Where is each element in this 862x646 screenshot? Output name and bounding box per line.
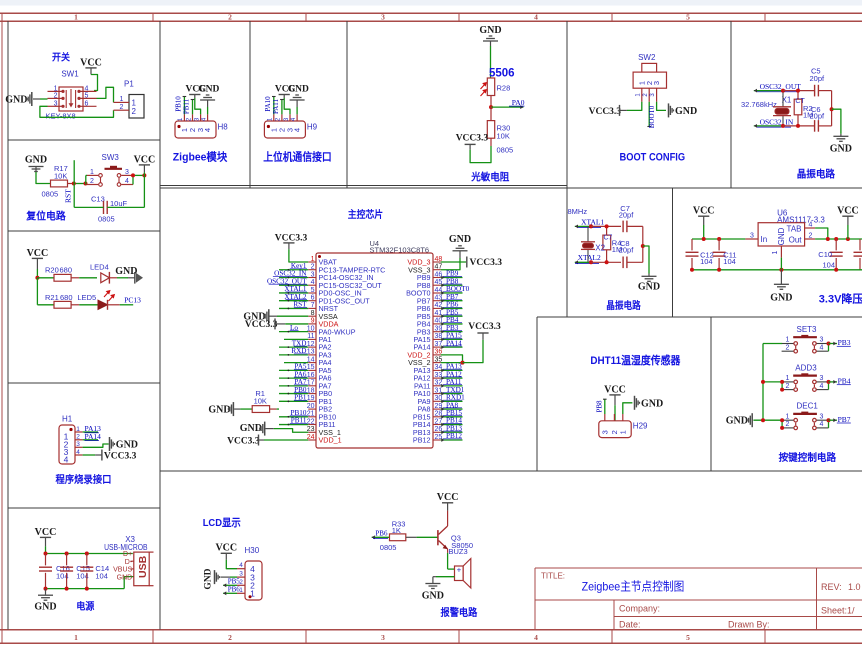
svg-text:PB6: PB6 [375, 529, 388, 537]
resistor R2 [794, 99, 802, 115]
net wire XTAL1 (U4 pin5) [279, 292, 308, 294]
net wire RXD1 (U4 pin30) [441, 400, 463, 402]
svg-text:2: 2 [786, 421, 790, 428]
net wire RST (U4 pin7) [279, 307, 308, 309]
svg-text:KEY-8X8: KEY-8X8 [46, 112, 76, 121]
svg-text:3: 3 [76, 441, 80, 448]
svg-text:3: 3 [381, 13, 385, 22]
net wire TXD (U4 pin12) [279, 346, 308, 348]
svg-text:6: 6 [85, 100, 89, 107]
svg-text:GND: GND [479, 25, 501, 36]
svg-text:GND: GND [204, 568, 214, 589]
svg-text:4: 4 [85, 85, 89, 92]
svg-text:5: 5 [686, 633, 690, 642]
net wire PB10 (H8) [183, 97, 185, 115]
net wire PB1 (U4 pin19) [279, 400, 308, 402]
svg-text:680: 680 [60, 293, 73, 302]
svg-text:5: 5 [85, 92, 89, 99]
net wire Lo (U4 pin10) [279, 331, 308, 333]
svg-text:GND: GND [638, 282, 660, 293]
ic U4 right pin stubs and names [406, 256, 442, 445]
wire to GND (32k) [832, 109, 841, 134]
junction dots R2 [796, 89, 800, 93]
svg-text:4: 4 [201, 117, 207, 121]
svg-text:VCC3.3: VCC3.3 [104, 451, 137, 461]
wire VCC to pin3 (H8) [195, 98, 201, 114]
svg-text:3.3V降压电路: 3.3V降压电路 [819, 292, 862, 306]
svg-text:VCC: VCC [27, 248, 49, 259]
svg-text:3: 3 [381, 633, 385, 642]
svg-text:2: 2 [643, 93, 649, 97]
svg-text:H29: H29 [633, 421, 648, 430]
junction dot PA0 node [489, 105, 493, 109]
svg-text:3: 3 [125, 169, 129, 176]
wire node to PA0 [491, 106, 523, 108]
junction dots (SW3 right) [131, 173, 135, 177]
svg-text:3: 3 [194, 117, 200, 121]
wire U4 pin11 [284, 338, 308, 340]
net wire XTAL2 [575, 261, 592, 263]
net wire PB9 (U4 pin46) [441, 276, 463, 278]
svg-text:4: 4 [293, 128, 302, 132]
net wire PB6 (LCD) [223, 592, 237, 594]
svg-text:2: 2 [228, 633, 232, 642]
svg-text:1.0: 1.0 [848, 582, 861, 592]
svg-text:USB: USB [137, 555, 149, 578]
net wire PA8 (U4 pin29) [441, 408, 463, 410]
svg-text:晶振电路: 晶振电路 [797, 168, 836, 181]
border zone ticks [152, 13, 154, 21]
svg-text:20pf: 20pf [619, 211, 635, 220]
net wire PB0 (U4 pin18) [279, 393, 308, 395]
net wire PA15 (U4 pin38) [441, 338, 463, 340]
wire DEC1 pins3-4 tie [828, 420, 830, 428]
svg-text:VCC: VCC [35, 527, 57, 538]
svg-text:OSC32_OUT: OSC32_OUT [760, 82, 802, 91]
connector H9 [273, 114, 275, 121]
net wire PB4 [829, 381, 838, 383]
net wire PA13 (U4 pin34) [441, 369, 463, 371]
svg-text:20pf: 20pf [810, 112, 826, 121]
svg-text:PC13: PC13 [124, 295, 141, 304]
svg-text:H9: H9 [307, 123, 318, 132]
wire SW2 pin1 to VCC3.3 [627, 102, 642, 111]
svg-text:SW3: SW3 [102, 153, 120, 162]
net wire OSC32_IN (U4 pin3) [279, 276, 308, 278]
svg-text:按键控制电路: 按键控制电路 [779, 451, 837, 464]
wire SW3 pins 3-4 tie to VCC [132, 175, 134, 184]
svg-text:BUZ3: BUZ3 [449, 547, 468, 556]
svg-text:1: 1 [311, 256, 315, 263]
net wire BOOT0 (U4 pin44) [441, 292, 463, 294]
svg-text:GND: GND [198, 85, 219, 95]
wire SW1 pin5 to P1 pin1 [97, 87, 114, 102]
ic U4 body [316, 253, 433, 448]
svg-text:VCC3.3: VCC3.3 [456, 133, 489, 143]
svg-text:GND: GND [449, 234, 471, 245]
svg-text:0805: 0805 [98, 215, 115, 224]
svg-text:2: 2 [186, 117, 192, 121]
wire pin1 to bottom rail [780, 258, 782, 270]
wire U4 pin48 to VCC3.3 [441, 261, 466, 263]
net wire PB3 [829, 343, 838, 345]
wire VCC node down to R21 [36, 278, 38, 305]
wire U4 pin47 to GND [441, 258, 460, 270]
net wire PB3 (U4 pin39) [441, 331, 463, 333]
resistor R4 [603, 235, 611, 250]
wire U4 pin36/35 to VCC3.3 [441, 355, 463, 363]
svg-text:GND: GND [777, 227, 786, 245]
svg-text:H8: H8 [218, 123, 229, 132]
svg-text:D-: D- [125, 559, 133, 566]
svg-text:XTAL1: XTAL1 [581, 217, 604, 226]
power VCC3.3 (U4 pin48) [466, 257, 468, 268]
svg-text:PA14: PA14 [85, 432, 102, 441]
wire GND to pin4 (H8) [207, 107, 209, 114]
svg-text:1: 1 [772, 250, 779, 254]
wire VCC to rail [45, 546, 47, 553]
net wire PB13 (U4 pin26) [441, 431, 463, 433]
svg-text:4: 4 [311, 279, 315, 286]
svg-text:2: 2 [786, 383, 790, 390]
ground GND (DHT11) [634, 396, 636, 410]
svg-text:VBUS: VBUS [113, 567, 132, 574]
net RST vertical wire [73, 160, 75, 207]
svg-text:GND: GND [117, 574, 133, 581]
net wire XTAL2 (U4 pin6) [279, 300, 308, 302]
net wire PA6 (U4 pin16) [279, 377, 308, 379]
svg-text:GND: GND [641, 398, 663, 409]
net wire RXD (U4 pin13) [279, 354, 308, 356]
svg-text:LED4: LED4 [90, 263, 109, 272]
svg-text:4: 4 [291, 117, 297, 121]
net wire PB6 (alarm) [372, 536, 390, 538]
wire H1 pin1 PA13 [83, 431, 98, 433]
capacitor C12 [691, 239, 693, 250]
net wire PB4 (U4 pin40) [441, 323, 463, 325]
svg-text:光敏电阻: 光敏电阻 [470, 171, 509, 184]
svg-text:GND: GND [34, 602, 56, 613]
net wire PB15 (U4 pin28) [441, 416, 463, 418]
svg-text:10K: 10K [54, 172, 67, 181]
svg-text:LCD显示: LCD显示 [203, 517, 242, 529]
svg-text:3: 3 [600, 430, 609, 434]
svg-text:2: 2 [809, 232, 813, 239]
junction dots top rail [44, 552, 48, 556]
svg-text:104: 104 [823, 260, 836, 269]
net wire TXD1 (U4 pin31) [441, 393, 463, 395]
svg-text:2: 2 [239, 579, 243, 586]
svg-text:4: 4 [534, 633, 538, 642]
svg-text:PB4: PB4 [838, 377, 851, 386]
wire X2 to R4/C7 [591, 225, 621, 227]
wire H1 pin2 PA14 [83, 439, 98, 441]
svg-text:REV:: REV: [821, 582, 842, 592]
wire to GND (8M) [643, 246, 649, 274]
wire SW3 pins 1-2 tie [85, 175, 87, 184]
svg-text:OSC32_IN: OSC32_IN [760, 117, 794, 126]
svg-text:104: 104 [700, 257, 713, 266]
capacitor C11 [718, 239, 720, 250]
svg-text:Date:: Date: [619, 620, 641, 630]
wire key trunk to GND [762, 344, 764, 421]
wire right rail 8M [642, 226, 644, 262]
wire VCC to node [36, 269, 38, 278]
ground GND (U4 pin47) [459, 251, 461, 258]
wire reg output rail [815, 238, 862, 240]
capacitor C16 [45, 554, 47, 566]
wire VCC to H30 pin4 [226, 560, 237, 569]
svg-text:VCC: VCC [215, 543, 237, 554]
wire R33 to Q3 base [406, 536, 417, 538]
net wire PA11 (U4 pin32) [441, 385, 463, 387]
wire VCC down to C13 [143, 172, 145, 207]
ground GND (H1) [109, 437, 111, 451]
svg-text:PB7: PB7 [838, 415, 851, 424]
svg-text:1: 1 [786, 337, 790, 344]
svg-text:6: 6 [311, 295, 315, 302]
net wire PB10 (U4 pin21) [279, 416, 308, 418]
wire SW2 pin2 BOOT0 [648, 102, 650, 127]
power VCC3.3 (U4 pin36) [482, 333, 484, 340]
svg-text:+: + [457, 566, 462, 575]
wire VCC to pin3 (H9) [284, 98, 290, 114]
svg-text:2: 2 [120, 104, 124, 111]
svg-text:复位电路: 复位电路 [25, 209, 66, 222]
capacitor C14 [86, 554, 88, 566]
wire R28 to node [490, 96, 492, 108]
sheet top margin strip [0, 0, 862, 6]
svg-text:2: 2 [132, 107, 137, 116]
svg-text:2: 2 [228, 13, 232, 22]
svg-text:GND: GND [5, 94, 27, 105]
ic U4 left pin stubs and names [307, 256, 386, 445]
svg-text:LED5: LED5 [77, 293, 96, 302]
svg-text:7: 7 [311, 302, 315, 309]
svg-text:X2: X2 [595, 243, 605, 252]
svg-text:20pf: 20pf [619, 245, 635, 254]
svg-text:GND: GND [115, 266, 137, 277]
wire reg input rail [692, 238, 745, 240]
wire node to R30 [490, 107, 492, 121]
junction dots (reset node) [72, 182, 76, 186]
svg-text:3: 3 [750, 232, 754, 239]
svg-text:GND: GND [726, 416, 748, 427]
svg-text:4: 4 [203, 128, 212, 132]
net wire Key1 (U4 pin2) [279, 269, 308, 271]
svg-text:PA0: PA0 [512, 98, 525, 107]
svg-text:VCC3.3: VCC3.3 [589, 107, 622, 117]
svg-text:3: 3 [239, 571, 243, 578]
svg-text:32.768kHz: 32.768kHz [741, 100, 777, 109]
svg-text:3: 3 [311, 271, 315, 278]
capacitor C10 [835, 239, 837, 250]
photoresistor R28 [487, 78, 494, 96]
svg-text:SW2: SW2 [638, 53, 656, 62]
wire H1 pin3 to GND [83, 444, 109, 447]
wire TAB to out rail [815, 228, 828, 239]
svg-text:开关: 开关 [52, 51, 70, 63]
svg-text:VCC: VCC [604, 384, 626, 395]
wire Q3 emitter to buzzer [447, 553, 449, 569]
wire X1 to R2/C5 [783, 90, 814, 92]
net wire PB7 [829, 419, 838, 421]
net wire PA10 (H9) [273, 97, 275, 115]
crystal X2 [587, 226, 589, 241]
svg-text:Company:: Company: [619, 604, 660, 614]
svg-text:3: 3 [820, 375, 824, 382]
svg-text:BOOT0: BOOT0 [648, 105, 656, 128]
junction dots R4 [605, 224, 609, 228]
net wire PB5 [223, 584, 237, 586]
svg-text:9: 9 [311, 318, 315, 325]
svg-text:ADD3: ADD3 [795, 363, 817, 372]
net wire PA11 (H9) [281, 100, 283, 115]
svg-text:5: 5 [311, 287, 315, 294]
svg-text:XTAL2: XTAL2 [578, 253, 601, 262]
ground GND (8M) [648, 274, 650, 277]
svg-text:0805: 0805 [42, 190, 59, 199]
transistor Q3 [437, 530, 439, 545]
svg-text:20pf: 20pf [810, 74, 826, 83]
title block frame [535, 568, 862, 630]
svg-text:VCC: VCC [80, 57, 102, 68]
svg-text:In: In [761, 235, 768, 244]
net wire PB11 (U4 pin22) [279, 424, 308, 426]
net wire PA5 (U4 pin15) [279, 369, 308, 371]
svg-text:10K: 10K [254, 396, 267, 405]
wire SW1 pin3 to P1 pin2 [40, 106, 114, 117]
svg-text:Zigbee模块: Zigbee模块 [173, 150, 228, 164]
junction dot led node [35, 276, 39, 280]
capacitor C9 (edge) [859, 239, 861, 250]
svg-text:GND: GND [770, 292, 792, 303]
svg-text:4: 4 [820, 383, 824, 390]
svg-text:4: 4 [239, 562, 243, 569]
wire GND to H30 pin3 [230, 576, 237, 578]
svg-text:1: 1 [54, 85, 58, 92]
svg-text:PB11: PB11 [183, 98, 191, 114]
svg-text:4: 4 [820, 344, 824, 351]
svg-text:3: 3 [650, 93, 656, 97]
sheet border outer lines [0, 12, 862, 14]
connector H29 [604, 414, 606, 421]
wire GND to R17 [36, 172, 50, 184]
svg-text:D+: D+ [123, 551, 132, 558]
wire VCC to H29 pin2 [614, 405, 616, 421]
wire SET3 pins3-4 tie [828, 344, 830, 352]
ground GND (reg) [780, 270, 782, 284]
wire LED5 to PC13 [120, 304, 134, 306]
svg-text:BOOT CONFIG: BOOT CONFIG [620, 152, 686, 164]
svg-text:PB12: PB12 [413, 436, 431, 445]
svg-text:8MHz: 8MHz [568, 207, 588, 216]
svg-text:1: 1 [76, 426, 80, 433]
junction dots crystal X1 [781, 89, 785, 93]
svg-text:2: 2 [76, 434, 80, 441]
net wire PA14 (U4 pin37) [441, 346, 463, 348]
svg-text:Out: Out [789, 236, 803, 245]
net wire PB8 (U4 pin45) [441, 284, 463, 286]
wire trunk to DEC1 [753, 419, 782, 421]
svg-text:VCC3.3: VCC3.3 [275, 234, 308, 244]
svg-text:H1: H1 [62, 415, 73, 424]
svg-text:4: 4 [76, 449, 80, 456]
svg-text:VCC3.3: VCC3.3 [227, 436, 260, 446]
svg-text:TAB: TAB [787, 225, 802, 234]
svg-text:VCC3.3: VCC3.3 [245, 320, 278, 330]
svg-text:报警电路: 报警电路 [441, 606, 479, 619]
wire R17 to SW3 [68, 183, 74, 185]
svg-text:主控芯片: 主控芯片 [348, 208, 383, 221]
svg-text:3: 3 [652, 81, 661, 85]
wire LED4 to GND [117, 277, 128, 279]
net wire PB7 (U4 pin43) [441, 300, 463, 302]
wire R30 to VCC3.3 [490, 138, 492, 146]
svg-text:4: 4 [125, 178, 129, 185]
junction dots crystal X2 [589, 224, 593, 228]
net wire OSC32_IN [754, 125, 783, 127]
wire trunk to ADD3 [763, 381, 782, 383]
svg-text:3: 3 [54, 100, 58, 107]
svg-text:VCC: VCC [693, 206, 715, 217]
svg-text:4: 4 [809, 221, 813, 228]
svg-text:SW1: SW1 [61, 70, 79, 79]
buzzer BUZ3 [455, 566, 464, 581]
svg-text:4: 4 [64, 455, 69, 465]
svg-text:10K: 10K [497, 132, 510, 141]
svg-text:GND: GND [116, 440, 138, 451]
svg-text:4: 4 [820, 421, 824, 428]
svg-text:C13: C13 [91, 195, 105, 204]
connector H8 [183, 114, 185, 121]
wire buzzer to GND [436, 576, 455, 578]
wire SW2 pin3 to GND [657, 102, 666, 111]
svg-text:PA10: PA10 [264, 96, 272, 112]
svg-text:GND: GND [240, 423, 262, 434]
svg-text:GND: GND [675, 106, 697, 117]
svg-text:Sheet:: Sheet: [821, 606, 847, 616]
svg-text:1: 1 [786, 375, 790, 382]
svg-text:0805: 0805 [380, 543, 397, 552]
svg-text:GND: GND [25, 154, 47, 165]
power VCC3.3 (H1) [101, 450, 103, 461]
wire ADD3 pins3-4 tie [828, 382, 830, 390]
wire U4 pin14 [284, 362, 308, 364]
wire VCC to SW1 pin4 [91, 75, 98, 91]
ground GND (boot) [668, 103, 670, 117]
net wire PB14 (U4 pin27) [441, 424, 463, 426]
wire bottom RST-C13-VCC [74, 206, 103, 208]
svg-text:PA11: PA11 [272, 98, 280, 114]
svg-text:PB3: PB3 [838, 338, 851, 347]
svg-text:VDD_1: VDD_1 [319, 436, 342, 445]
svg-text:PB8: PB8 [595, 400, 603, 413]
svg-text:1: 1 [268, 117, 274, 121]
svg-text:GND: GND [208, 404, 230, 415]
svg-text:1: 1 [239, 587, 243, 594]
wire U4 pin1 to VCC3.3 [289, 249, 308, 262]
svg-text:GND: GND [422, 591, 444, 602]
net wire XTAL1 [575, 225, 592, 227]
svg-text:VCC3.3: VCC3.3 [468, 322, 501, 332]
svg-text:2: 2 [54, 92, 58, 99]
svg-text:5: 5 [686, 13, 690, 22]
svg-text:4: 4 [534, 13, 538, 22]
svg-text:1: 1 [120, 96, 124, 103]
svg-text:0805: 0805 [497, 146, 514, 155]
svg-text:1: 1 [618, 430, 627, 434]
